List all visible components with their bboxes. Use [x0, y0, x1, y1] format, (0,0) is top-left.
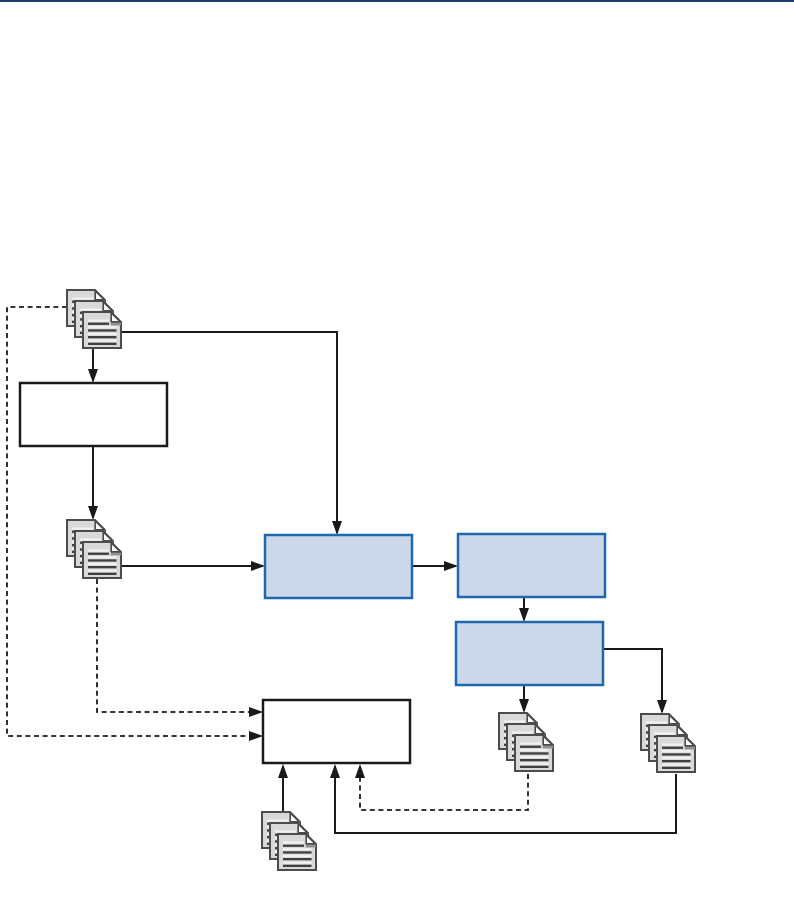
wire: box D right to box E left — [412, 565, 456, 567]
arrowhead into box D top — [332, 521, 342, 535]
wire: stack C right to box D left — [121, 565, 263, 567]
process box G (white) — [263, 700, 410, 763]
document stack J (bottom) — [262, 812, 316, 870]
arrowhead into box F top — [519, 608, 529, 622]
wire: box F right to stack I top (elbow) — [603, 649, 662, 712]
process box F (blue) — [456, 622, 603, 685]
arrowhead into box G left (lower) — [249, 731, 263, 741]
dashed wire: stack A left, down left margin, into box G left — [7, 307, 261, 736]
process box D (blue) — [265, 535, 412, 598]
arrowhead into box E left — [444, 561, 458, 571]
dashed wire: stack H bottom, down, left, up into box G bottom — [360, 766, 528, 810]
document stack H (below box F) — [499, 713, 553, 771]
top header bar — [0, 0, 794, 2]
dashed wire: stack C bottom, down, into box G left — [97, 579, 261, 712]
wire: stack J top to box G bottom — [282, 766, 284, 812]
arrowhead into box G left (upper) — [249, 707, 263, 717]
arrowhead into stack C top — [88, 506, 98, 520]
wire: stack I bottom to box G bottom (elbow) — [335, 766, 676, 833]
arrowhead into stack I top — [657, 700, 667, 714]
wire: box F bottom to stack H top — [523, 685, 525, 711]
arrowhead up into box G bottom — [278, 764, 288, 778]
arrowhead up into box G bottom — [330, 764, 340, 778]
arrowhead up into box G bottom — [355, 764, 365, 778]
arrowhead into box B top — [88, 369, 98, 383]
document stack C (middle left) — [67, 520, 121, 578]
document stack I (right) — [641, 714, 695, 772]
process box B (white) — [20, 383, 167, 446]
wire: stack A right to box D top (elbow) — [121, 332, 337, 533]
wire: box B bottom to stack C top — [92, 446, 94, 518]
arrowhead into stack H top — [519, 699, 529, 713]
wire: stack A bottom to box B top — [92, 348, 94, 381]
arrowhead into box D left — [251, 561, 265, 571]
document stack A (top left) — [67, 290, 121, 348]
wire: box E bottom to box F top — [523, 597, 525, 620]
process box E (blue) — [458, 534, 605, 597]
